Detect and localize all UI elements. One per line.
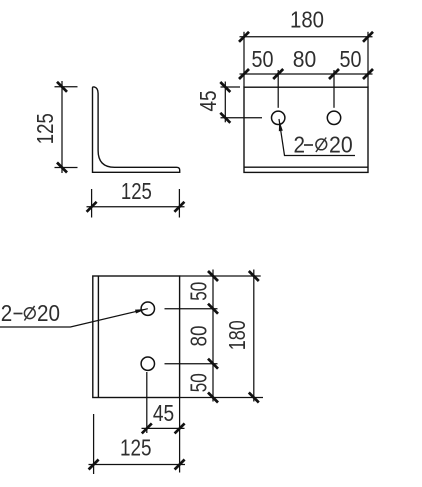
svg-text:50: 50 — [340, 46, 362, 72]
svg-text:80: 80 — [185, 326, 211, 347]
svg-text:180: 180 — [290, 7, 324, 33]
svg-text:125: 125 — [32, 113, 58, 144]
svg-text:50: 50 — [185, 373, 211, 392]
svg-text:45: 45 — [153, 400, 174, 426]
svg-text:20: 20 — [37, 300, 60, 326]
svg-text:20: 20 — [329, 132, 353, 158]
svg-text:50: 50 — [185, 282, 211, 301]
svg-text:45: 45 — [195, 91, 221, 112]
svg-text:125: 125 — [120, 435, 152, 461]
svg-text:180: 180 — [224, 320, 250, 350]
svg-text:80: 80 — [293, 46, 317, 72]
svg-text:2: 2 — [294, 132, 306, 158]
svg-text:125: 125 — [121, 178, 152, 204]
svg-text:50: 50 — [252, 46, 274, 72]
svg-text:2: 2 — [1, 300, 13, 326]
